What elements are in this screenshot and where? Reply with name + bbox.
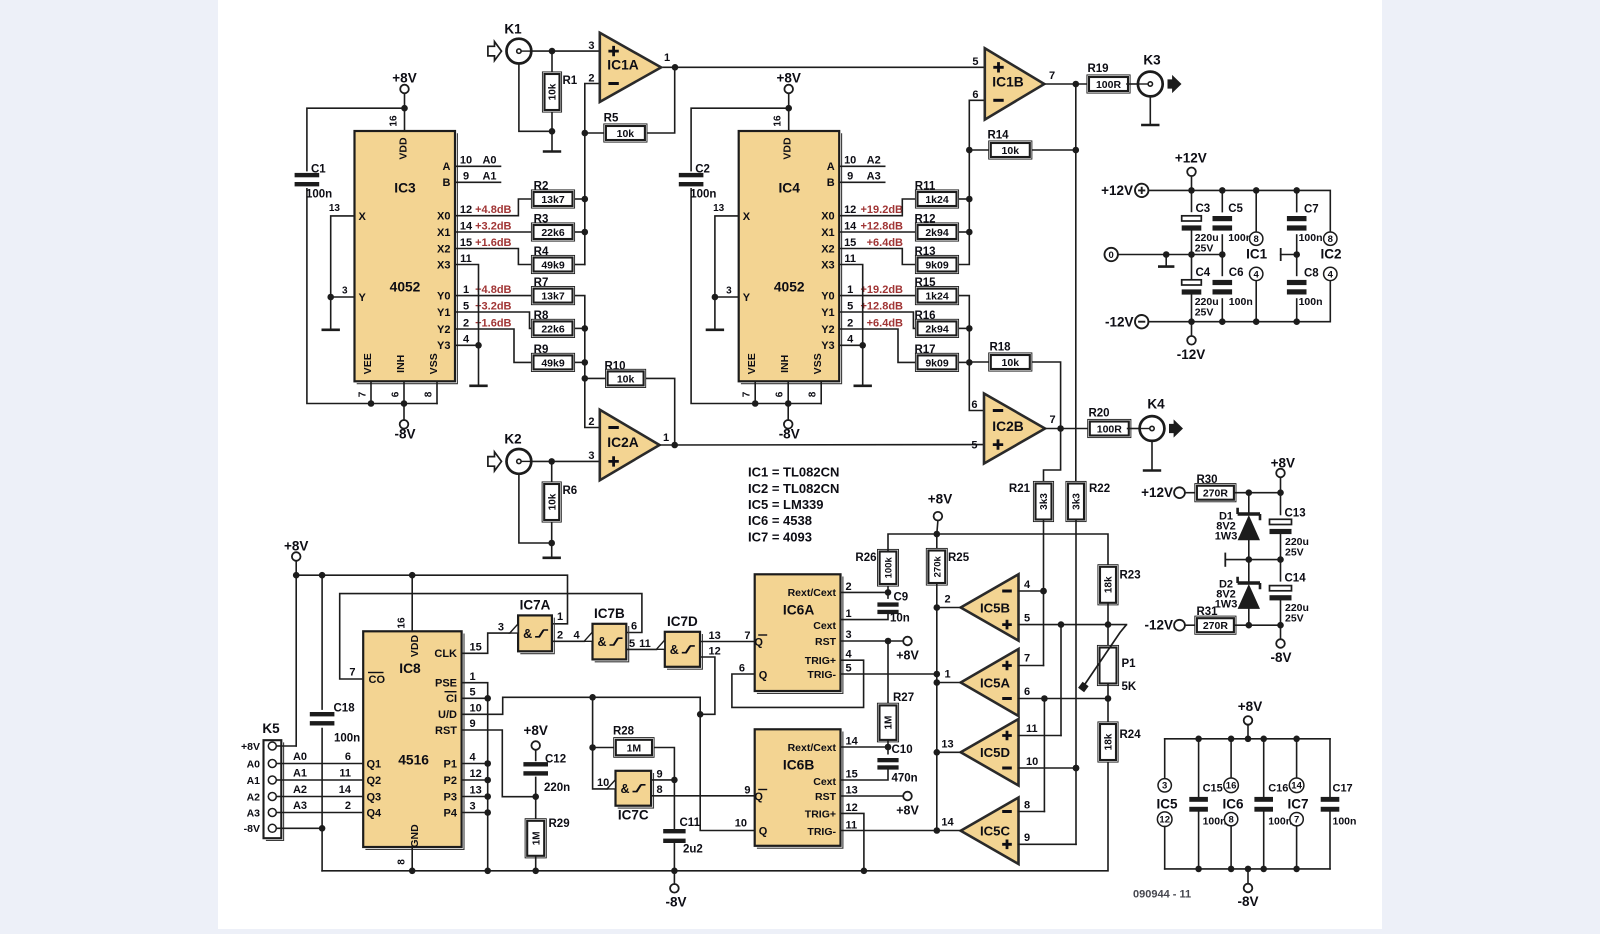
svg-text:12: 12 [846, 802, 858, 814]
svg-text:13k7: 13k7 [541, 291, 565, 303]
svg-text:6: 6 [391, 391, 402, 397]
svg-text:X2: X2 [437, 243, 450, 255]
svg-text:R27: R27 [893, 692, 914, 704]
svg-text:P1: P1 [444, 758, 457, 770]
svg-text:18k: 18k [1104, 733, 1115, 750]
svg-text:R6: R6 [563, 485, 578, 497]
svg-text:IC1 = TL082CN: IC1 = TL082CN [748, 465, 839, 480]
svg-text:P2: P2 [444, 775, 457, 787]
svg-text:470n: 470n [892, 773, 918, 785]
svg-text:+8V: +8V [1271, 456, 1295, 471]
svg-text:22k6: 22k6 [541, 227, 565, 239]
svg-text:R4: R4 [534, 246, 549, 258]
svg-text:14: 14 [846, 736, 859, 748]
svg-text:C12: C12 [545, 754, 566, 766]
svg-text:1: 1 [557, 611, 563, 623]
svg-text:4052: 4052 [390, 280, 421, 295]
svg-text:C6: C6 [1229, 267, 1244, 279]
svg-text:C9: C9 [894, 592, 909, 604]
svg-text:A2: A2 [247, 791, 261, 803]
svg-text:IC1: IC1 [1246, 246, 1268, 261]
svg-text:25V: 25V [1285, 546, 1304, 558]
svg-text:R28: R28 [613, 726, 635, 738]
svg-text:C4: C4 [1196, 267, 1211, 279]
svg-text:13: 13 [329, 203, 341, 214]
svg-text:13: 13 [709, 630, 721, 642]
svg-text:Y3: Y3 [821, 340, 834, 352]
svg-text:Y0: Y0 [437, 290, 450, 302]
svg-text:A0: A0 [293, 751, 307, 763]
svg-text:6: 6 [739, 662, 745, 674]
svg-text:5: 5 [972, 56, 978, 68]
svg-text:IC5B: IC5B [980, 600, 1010, 615]
svg-text:&: & [670, 643, 679, 657]
svg-text:Y: Y [359, 292, 367, 304]
svg-text:-8V: -8V [779, 427, 800, 442]
svg-text:1: 1 [664, 52, 670, 64]
svg-text:-8V: -8V [665, 895, 686, 910]
svg-text:Y2: Y2 [821, 324, 834, 336]
svg-text:15: 15 [846, 769, 858, 781]
svg-text:R25: R25 [948, 552, 970, 564]
svg-text:R11: R11 [915, 180, 936, 192]
svg-text:11: 11 [460, 253, 472, 265]
svg-text:0: 0 [1109, 250, 1114, 261]
svg-text:A3: A3 [867, 171, 881, 183]
svg-text:R5: R5 [604, 113, 619, 125]
svg-text:R29: R29 [549, 818, 570, 830]
svg-text:1: 1 [846, 608, 852, 620]
svg-text:TRIG-: TRIG- [807, 669, 836, 681]
svg-text:PSE: PSE [435, 678, 457, 690]
svg-text:+8V: +8V [928, 492, 952, 507]
svg-text:1W3: 1W3 [1215, 598, 1238, 610]
svg-text:8: 8 [424, 391, 435, 397]
svg-text:220n: 220n [544, 782, 570, 794]
svg-text:TRIG+: TRIG+ [805, 808, 836, 820]
svg-text:X3: X3 [821, 259, 834, 271]
svg-text:+19.2dB: +19.2dB [861, 284, 904, 296]
svg-text:9: 9 [470, 718, 476, 730]
svg-text:22k6: 22k6 [541, 323, 565, 335]
svg-text:9: 9 [744, 785, 750, 797]
svg-text:A2: A2 [293, 784, 307, 796]
svg-text:100n: 100n [1333, 816, 1357, 828]
svg-text:R10: R10 [604, 361, 625, 373]
svg-text:100n: 100n [334, 733, 360, 745]
svg-text:13: 13 [941, 738, 953, 750]
svg-text:Rext/Cext: Rext/Cext [788, 587, 837, 599]
svg-text:-8V: -8V [394, 427, 415, 442]
svg-text:2: 2 [557, 630, 563, 642]
svg-text:C16: C16 [1268, 783, 1288, 795]
svg-text:8: 8 [1328, 234, 1333, 245]
svg-text:X: X [743, 211, 751, 223]
svg-text:R7: R7 [534, 277, 549, 289]
svg-text:RST: RST [815, 636, 837, 648]
svg-text:270k: 270k [932, 556, 943, 578]
svg-text:VDD: VDD [398, 137, 410, 160]
svg-text:7: 7 [1294, 815, 1299, 826]
svg-text:Y2: Y2 [437, 324, 450, 336]
svg-text:Q: Q [759, 826, 768, 838]
svg-text:Cext: Cext [813, 776, 836, 788]
svg-text:K5: K5 [262, 721, 280, 736]
svg-text:X2: X2 [821, 243, 834, 255]
svg-text:6: 6 [972, 89, 978, 101]
svg-text:9: 9 [1024, 832, 1030, 844]
svg-text:4: 4 [1328, 269, 1334, 280]
svg-text:2: 2 [588, 72, 594, 84]
svg-text:IC6B: IC6B [783, 758, 814, 773]
svg-text:1: 1 [944, 669, 950, 681]
svg-text:-8V: -8V [244, 823, 260, 835]
svg-text:2k94: 2k94 [925, 323, 949, 335]
svg-text:IC7 = 4093: IC7 = 4093 [748, 529, 812, 544]
svg-text:+3.2dB: +3.2dB [475, 300, 511, 312]
svg-text:R13: R13 [914, 246, 935, 258]
svg-text:2: 2 [847, 317, 853, 329]
svg-text:IC7D: IC7D [667, 614, 698, 629]
svg-text:4: 4 [847, 334, 854, 346]
svg-text:+12V: +12V [1101, 183, 1133, 198]
svg-text:8: 8 [1024, 800, 1030, 812]
svg-text:Y1: Y1 [437, 307, 450, 319]
svg-text:10k: 10k [617, 128, 635, 140]
svg-text:1M: 1M [884, 716, 895, 730]
svg-text:+12.8dB: +12.8dB [861, 220, 904, 232]
svg-text:INH: INH [395, 355, 407, 373]
svg-text:16: 16 [773, 115, 784, 127]
svg-text:14: 14 [941, 817, 954, 829]
svg-text:CLK: CLK [434, 648, 457, 660]
svg-text:100R: 100R [1096, 79, 1122, 91]
svg-text:4: 4 [463, 334, 470, 346]
svg-text:+8V: +8V [776, 71, 800, 86]
svg-text:10k: 10k [548, 83, 559, 100]
svg-text:8: 8 [657, 784, 663, 796]
svg-text:TRIG-: TRIG- [807, 826, 836, 838]
svg-text:5: 5 [629, 638, 635, 650]
svg-text:Y1: Y1 [821, 307, 834, 319]
svg-text:18k: 18k [1104, 576, 1115, 593]
svg-text:10: 10 [470, 703, 482, 715]
svg-text:Q4: Q4 [367, 807, 383, 819]
svg-text:Q: Q [754, 637, 763, 649]
svg-text:-12V: -12V [1105, 314, 1134, 329]
svg-text:5: 5 [463, 300, 469, 312]
svg-text:6: 6 [971, 399, 977, 411]
svg-text:3: 3 [846, 629, 852, 641]
svg-text:R23: R23 [1120, 570, 1141, 582]
svg-text:INH: INH [779, 355, 791, 373]
svg-text:P1: P1 [1122, 658, 1137, 670]
svg-text:Q1: Q1 [367, 758, 382, 770]
svg-text:IC5A: IC5A [980, 675, 1011, 690]
svg-text:7: 7 [358, 391, 369, 397]
svg-text:IC2A: IC2A [607, 435, 638, 450]
svg-text:2: 2 [588, 416, 594, 428]
svg-text:A: A [827, 161, 835, 173]
svg-text:IC6A: IC6A [783, 603, 814, 618]
svg-text:10: 10 [844, 155, 856, 167]
svg-text:100n: 100n [1299, 232, 1323, 244]
svg-text:3: 3 [1162, 781, 1167, 792]
svg-text:+12V: +12V [1141, 485, 1173, 500]
svg-text:1W3: 1W3 [1215, 530, 1238, 542]
svg-text:3: 3 [726, 286, 732, 297]
svg-text:12: 12 [1159, 815, 1170, 826]
svg-text:270R: 270R [1203, 620, 1229, 632]
svg-text:IC8: IC8 [399, 661, 421, 676]
svg-text:100n: 100n [1203, 816, 1227, 828]
svg-text:+12V: +12V [1175, 151, 1207, 166]
svg-text:IC6: IC6 [1222, 797, 1244, 812]
svg-text:VDD: VDD [782, 137, 794, 160]
svg-text:IC7A: IC7A [520, 598, 551, 613]
svg-text:+4.8dB: +4.8dB [475, 204, 511, 216]
svg-text:+1.6dB: +1.6dB [475, 237, 511, 249]
svg-text:4: 4 [573, 630, 580, 642]
svg-text:R21: R21 [1009, 483, 1031, 495]
svg-text:5: 5 [847, 300, 853, 312]
svg-text:U/D: U/D [438, 709, 457, 721]
svg-text:100R: 100R [1097, 423, 1123, 435]
svg-text:R14: R14 [987, 130, 1009, 142]
svg-text:4: 4 [1024, 579, 1031, 591]
svg-text:6: 6 [345, 751, 351, 763]
svg-text:Q2: Q2 [367, 775, 382, 787]
svg-text:25V: 25V [1195, 307, 1214, 319]
svg-text:7: 7 [349, 667, 355, 679]
svg-text:2k94: 2k94 [925, 227, 949, 239]
svg-text:VSS: VSS [428, 353, 440, 374]
svg-text:C14: C14 [1285, 573, 1307, 585]
svg-text:IC7: IC7 [1287, 797, 1308, 812]
svg-text:IC5: IC5 [1156, 797, 1178, 812]
svg-text:4: 4 [846, 649, 853, 661]
svg-text:RST: RST [435, 725, 457, 737]
svg-text:15: 15 [470, 642, 482, 654]
svg-text:10: 10 [460, 155, 472, 167]
svg-text:49k9: 49k9 [541, 259, 565, 271]
svg-text:7: 7 [744, 630, 750, 642]
svg-text:IC5C: IC5C [980, 823, 1011, 838]
svg-text:+8V: +8V [896, 804, 919, 818]
svg-text:5: 5 [470, 687, 476, 699]
svg-text:6: 6 [631, 621, 637, 633]
svg-text:GND: GND [409, 824, 421, 848]
svg-text:Q: Q [759, 669, 768, 681]
svg-text:+12.8dB: +12.8dB [861, 300, 904, 312]
svg-text:4: 4 [470, 752, 477, 764]
svg-text:VEE: VEE [362, 353, 374, 374]
svg-text:15: 15 [460, 237, 472, 249]
svg-text:P4: P4 [444, 807, 458, 819]
svg-text:C2: C2 [695, 164, 710, 176]
svg-text:K1: K1 [504, 22, 522, 37]
svg-text:B: B [443, 177, 451, 189]
svg-text:12: 12 [470, 768, 482, 780]
svg-text:+8V: +8V [284, 538, 308, 553]
svg-text:+8V: +8V [392, 71, 416, 86]
svg-text:1k24: 1k24 [925, 194, 949, 206]
svg-text:10k: 10k [1002, 145, 1020, 157]
svg-text:Q: Q [754, 791, 763, 803]
svg-text:3k3: 3k3 [1039, 493, 1050, 510]
svg-text:-8V: -8V [1270, 650, 1291, 665]
svg-text:R19: R19 [1087, 63, 1108, 75]
svg-text:VSS: VSS [812, 353, 824, 374]
svg-text:12: 12 [460, 204, 472, 216]
svg-text:IC7B: IC7B [594, 606, 625, 621]
svg-text:10k: 10k [1002, 357, 1020, 369]
svg-text:R2: R2 [534, 180, 549, 192]
svg-text:+6.4dB: +6.4dB [867, 317, 903, 329]
svg-text:IC1B: IC1B [992, 75, 1023, 90]
svg-text:14: 14 [460, 220, 473, 232]
svg-text:C11: C11 [680, 817, 701, 829]
svg-text:X: X [359, 211, 367, 223]
svg-text:R20: R20 [1088, 408, 1109, 420]
svg-text:1M: 1M [531, 831, 542, 845]
svg-text:8: 8 [397, 859, 408, 865]
svg-text:C18: C18 [334, 703, 356, 715]
svg-text:IC7C: IC7C [618, 808, 649, 823]
svg-text:1: 1 [663, 432, 669, 444]
svg-text:A1: A1 [293, 768, 307, 780]
svg-text:100n: 100n [1229, 296, 1253, 308]
svg-text:2u2: 2u2 [683, 844, 703, 856]
svg-text:K2: K2 [504, 432, 521, 447]
svg-text:+8V: +8V [241, 741, 260, 753]
svg-text:+6.4dB: +6.4dB [867, 237, 903, 249]
svg-text:2: 2 [944, 594, 950, 606]
svg-text:X0: X0 [437, 211, 450, 223]
svg-text:10: 10 [597, 777, 609, 789]
svg-text:X0: X0 [821, 211, 834, 223]
svg-text:2: 2 [463, 317, 469, 329]
svg-text:RST: RST [815, 791, 837, 803]
svg-text:TRIG+: TRIG+ [805, 655, 836, 667]
svg-text:A1: A1 [247, 775, 261, 787]
svg-text:K3: K3 [1143, 53, 1161, 68]
svg-text:270R: 270R [1203, 488, 1229, 500]
svg-text:+8V: +8V [1238, 699, 1262, 714]
svg-text:11: 11 [844, 253, 856, 265]
svg-text:C1: C1 [311, 164, 326, 176]
svg-text:+8V: +8V [896, 649, 919, 663]
svg-text:16: 16 [397, 617, 408, 629]
svg-text:12: 12 [709, 645, 721, 657]
svg-text:5: 5 [1024, 613, 1030, 625]
svg-text:A3: A3 [293, 800, 307, 812]
svg-text:11: 11 [339, 768, 351, 780]
svg-text:IC2: IC2 [1320, 246, 1341, 261]
svg-text:100n: 100n [1228, 232, 1252, 244]
svg-text:4052: 4052 [774, 280, 805, 295]
svg-text:16: 16 [1226, 781, 1237, 792]
svg-text:R9: R9 [534, 344, 549, 356]
svg-text:11: 11 [1026, 723, 1038, 735]
svg-text:CO: CO [369, 674, 386, 686]
svg-text:Y0: Y0 [821, 290, 834, 302]
svg-text:R26: R26 [855, 552, 876, 564]
svg-text:14: 14 [844, 220, 857, 232]
svg-text:IC1A: IC1A [607, 57, 638, 72]
svg-text:10: 10 [1026, 756, 1038, 768]
svg-text:R17: R17 [914, 344, 935, 356]
svg-text:-12V: -12V [1177, 347, 1206, 362]
svg-text:1: 1 [847, 284, 853, 296]
svg-text:&: & [620, 782, 629, 796]
svg-text:A2: A2 [867, 155, 881, 167]
svg-text:13k7: 13k7 [541, 194, 565, 206]
svg-text:IC3: IC3 [394, 181, 416, 196]
svg-text:9k09: 9k09 [925, 259, 949, 271]
svg-text:A3: A3 [247, 807, 261, 819]
svg-text:3k3: 3k3 [1072, 493, 1083, 510]
svg-text:100k: 100k [884, 557, 895, 579]
svg-text:Rext/Cext: Rext/Cext [788, 742, 837, 754]
svg-text:9: 9 [847, 171, 853, 183]
svg-text:IC5 = LM339: IC5 = LM339 [748, 497, 824, 512]
svg-text:5: 5 [846, 662, 852, 674]
svg-text:9: 9 [463, 171, 469, 183]
svg-text:VDD: VDD [409, 634, 421, 657]
svg-text:7: 7 [1050, 414, 1056, 426]
svg-text:B: B [827, 177, 835, 189]
svg-text:2: 2 [345, 800, 351, 812]
svg-text:IC5D: IC5D [980, 745, 1010, 760]
svg-text:13: 13 [470, 785, 482, 797]
svg-text:16: 16 [389, 115, 400, 127]
svg-text:13: 13 [846, 785, 858, 797]
svg-text:+8V: +8V [523, 723, 547, 738]
svg-text:10k: 10k [617, 373, 635, 385]
svg-text:C13: C13 [1285, 508, 1306, 520]
svg-text:10k: 10k [547, 493, 558, 510]
svg-text:10n: 10n [890, 613, 910, 625]
svg-text:C17: C17 [1333, 783, 1353, 795]
svg-text:+19.2dB: +19.2dB [861, 204, 904, 216]
svg-text:8: 8 [1228, 815, 1233, 826]
svg-text:2: 2 [846, 581, 852, 593]
svg-text:100n: 100n [1268, 816, 1292, 828]
svg-text:Y3: Y3 [437, 340, 450, 352]
svg-text:11: 11 [639, 638, 651, 650]
svg-text:12: 12 [844, 204, 856, 216]
svg-text:K4: K4 [1147, 397, 1165, 412]
svg-text:R30: R30 [1196, 474, 1217, 486]
svg-text:C3: C3 [1196, 203, 1211, 215]
svg-text:100n: 100n [1299, 296, 1323, 308]
svg-text:3: 3 [342, 286, 348, 297]
svg-text:+4.8dB: +4.8dB [475, 284, 511, 296]
svg-text:3: 3 [588, 40, 594, 52]
svg-text:C7: C7 [1304, 204, 1319, 216]
svg-text:X3: X3 [437, 259, 450, 271]
svg-text:7: 7 [1024, 653, 1030, 665]
svg-text:P3: P3 [444, 791, 457, 803]
svg-text:1k24: 1k24 [925, 291, 949, 303]
svg-text:100n: 100n [306, 189, 332, 201]
svg-text:IC6 = 4538: IC6 = 4538 [748, 513, 812, 528]
svg-text:R18: R18 [989, 342, 1011, 354]
svg-text:C15: C15 [1203, 783, 1223, 795]
svg-text:IC4: IC4 [778, 181, 800, 196]
svg-text:7: 7 [1049, 70, 1055, 82]
